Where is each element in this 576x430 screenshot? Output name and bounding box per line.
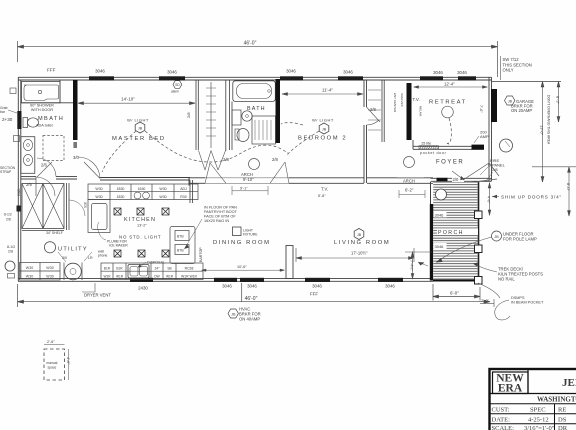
svg-text:◄: ◄	[446, 142, 449, 146]
living ceiling fan	[354, 229, 364, 240]
bath2 walls	[229, 80, 231, 150]
bedroom2 east wall	[364, 80, 367, 183]
svg-text:46'-0": 46'-0"	[245, 296, 258, 302]
svg-text:alarm: alarm	[171, 90, 179, 94]
svg-text:PORCH: PORCH	[438, 230, 464, 236]
svg-text:DR: DR	[558, 425, 568, 430]
svg-text:JB: JB	[138, 127, 143, 131]
dryer vent cap outside wall	[5, 261, 15, 271]
svg-text:SB: SB	[167, 267, 171, 271]
right side dim 8'-0"	[532, 166, 576, 168]
svg-text:SCALE:: SCALE:	[492, 425, 515, 430]
house shell	[18, 77, 492, 281]
svg-text:8'-0": 8'-0"	[566, 183, 571, 192]
hall ceiling light 1	[249, 159, 260, 170]
window 3046 top 1	[89, 76, 114, 80]
utility east wall stub	[22, 183, 69, 231]
utility washer/dryer	[22, 184, 64, 229]
svg-text:3046: 3046	[343, 70, 353, 75]
floor registers kitchen	[114, 208, 169, 257]
svg-text:NO RAIL: NO RAIL	[498, 277, 515, 282]
bartop column	[170, 227, 195, 264]
bath2 toilet	[237, 129, 249, 142]
svg-text:2/8: 2/8	[492, 167, 498, 172]
master closet	[196, 80, 226, 151]
window 3046 top 3	[280, 76, 303, 80]
svg-text:8-1/2: 8-1/2	[4, 213, 12, 217]
svg-text:7'-4½": 7'-4½"	[410, 260, 414, 271]
carport roof line	[492, 81, 562, 83]
foyer exterior door swings	[463, 163, 499, 183]
svg-text:DSMPS: DSMPS	[511, 296, 525, 300]
svg-text:13'-2": 13'-2"	[137, 224, 147, 228]
svg-text:JB: JB	[322, 128, 327, 132]
mbath vanity	[21, 137, 35, 174]
bedroom2 width dim 11'-4"	[282, 93, 363, 96]
svg-text:BEDROOM 2: BEDROOM 2	[298, 136, 347, 142]
wall mbath/master (thick shear wall)	[73, 80, 78, 140]
svg-text:13'-0": 13'-0"	[540, 125, 545, 136]
svg-text:W30: W30	[95, 195, 102, 199]
svg-text:B1R: B1R	[104, 267, 111, 271]
svg-text:9'-10": 9'-10"	[243, 177, 254, 182]
svg-text:4-25-12: 4-25-12	[528, 416, 549, 423]
svg-text:WITH DOOR: WITH DOOR	[31, 108, 53, 112]
svg-text:FIXTURE: FIXTURE	[243, 233, 258, 237]
svg-text:W30: W30	[26, 275, 33, 279]
svg-text:12'-4": 12'-4"	[444, 82, 455, 87]
shear wall bath2/bedroom2	[276, 79, 281, 143]
svg-text:AMP: AMP	[480, 134, 489, 139]
window 3046 top 5	[420, 76, 443, 80]
porch bottom edge	[433, 280, 475, 282]
svg-text:space: space	[48, 366, 57, 370]
svg-text:S18: S18	[84, 202, 88, 208]
svg-text:FOYER: FOYER	[436, 160, 464, 166]
svg-text:15 lite: 15 lite	[421, 142, 431, 146]
svg-text:THIS SECTION: THIS SECTION	[503, 62, 532, 67]
svg-text:SW 7/12: SW 7/12	[503, 57, 520, 62]
svg-text:6'-0": 6'-0"	[450, 291, 459, 296]
svg-text:DINING ROOM: DINING ROOM	[213, 240, 271, 246]
bottom wall	[18, 278, 433, 280]
bedroom zone south wall (marriage wall)	[189, 178, 433, 184]
right wall shear (black)	[491, 89, 497, 122]
svg-text:SPEC: SPEC	[530, 406, 546, 413]
svg-text:2/8: 2/8	[26, 182, 32, 187]
foyer/porch wall with exterior door	[431, 178, 492, 181]
svg-text:2/8: 2/8	[6, 218, 11, 222]
closet doors	[199, 151, 226, 171]
svg-text:17'-10½": 17'-10½"	[351, 251, 368, 256]
svg-text:WASHINGTO: WASHINGTO	[537, 396, 576, 404]
svg-text:ON 40AMP: ON 40AMP	[239, 317, 260, 322]
carport dim 13'-0"	[541, 82, 544, 183]
bath2 tub	[233, 81, 275, 102]
hall door arcs	[205, 163, 226, 183]
svg-text:3046: 3046	[167, 70, 177, 75]
svg-text:LR: LR	[88, 256, 93, 260]
kitchen base cabinets / island	[101, 263, 203, 280]
svg-text:24": 24"	[155, 267, 160, 271]
svg-text:UTILITY: UTILITY	[58, 247, 88, 253]
svg-text:3046: 3046	[435, 244, 445, 249]
svg-text:3046: 3046	[95, 69, 105, 74]
svg-text:W/ LIGHT: W/ LIGHT	[312, 118, 334, 123]
svg-text:3046: 3046	[286, 69, 296, 74]
svg-text:R30: R30	[180, 195, 186, 199]
window 3046 bottom living 1	[305, 278, 330, 282]
svg-text:2/8: 2/8	[8, 250, 13, 254]
svg-text:8'-3": 8'-3"	[556, 96, 561, 105]
svg-text:11'-4": 11'-4"	[322, 88, 333, 93]
pocket door wall foyer/retreat	[413, 140, 472, 149]
svg-text:ENT CENTER: ENT CENTER	[393, 93, 397, 113]
JB box left margin	[10, 88, 16, 94]
svg-text:BARTOP: BARTOP	[199, 247, 203, 262]
arch opening foyer side	[397, 177, 424, 179]
svg-text:W30: W30	[159, 187, 166, 191]
kitchen sink	[128, 265, 149, 279]
svg-text:1830: 1830	[117, 187, 125, 191]
hall ceiling light 2	[404, 157, 415, 168]
porch/living wall (black)	[430, 182, 432, 204]
utility door arc	[58, 252, 92, 262]
deck width dim 6'-0"	[433, 284, 480, 301]
svg-text:3046: 3046	[435, 213, 445, 218]
svg-text:2/8: 2/8	[370, 107, 376, 112]
svg-text:2430: 2430	[138, 286, 148, 291]
retreat dim 12'-0"	[414, 86, 487, 88]
master bed door 3/0	[78, 157, 100, 179]
svg-text:ON 20AMP: ON 20AMP	[511, 108, 532, 113]
interior wall mbath south	[21, 177, 190, 186]
svg-text:SD: SD	[175, 83, 180, 87]
svg-text:ARCH: ARCH	[403, 178, 415, 183]
svg-text:IN BEAM POCKET: IN BEAM POCKET	[511, 301, 544, 305]
kitchen east wall	[190, 180, 193, 203]
svg-text:34" SHELF: 34" SHELF	[46, 231, 63, 235]
media wall	[286, 246, 293, 279]
under floor pole lamp note	[492, 231, 502, 241]
porch round table	[436, 189, 447, 200]
svg-text:MBATH: MBATH	[38, 116, 64, 122]
svg-text:3/16"=1'-0": 3/16"=1'-0"	[524, 425, 555, 430]
svg-text:3046: 3046	[433, 70, 443, 75]
retreat ceiling light	[442, 106, 454, 118]
svg-text:RETREAT: RETREAT	[429, 100, 467, 106]
mbath north interior wall	[21, 102, 73, 104]
svg-text:W30: W30	[95, 187, 102, 191]
svg-text:W30: W30	[46, 266, 53, 270]
arch opening dining	[205, 177, 289, 179]
svg-text:KITCHEN: KITCHEN	[124, 217, 156, 223]
svg-text:W1R: W1R	[116, 275, 124, 279]
2'-0" dim	[480, 299, 494, 307]
kitchen north cabinets	[88, 184, 198, 200]
overall bottom dimension 46'-0"	[18, 283, 491, 307]
svg-text:ADJ: ADJ	[180, 187, 187, 191]
svg-text:PANTRY/HT BOOT: PANTRY/HT BOOT	[204, 210, 238, 214]
svg-text:2+30: 2+30	[2, 117, 13, 122]
window 3046 top 4	[338, 76, 363, 80]
svg-text:IN FLOOR OF PAN: IN FLOOR OF PAN	[204, 206, 237, 210]
svg-text:B1R: B1R	[116, 267, 123, 271]
svg-text:ERA: ERA	[498, 383, 523, 395]
right wall	[488, 77, 490, 181]
svg-text:ICE MAKER: ICE MAKER	[109, 243, 128, 247]
svg-text:2'-6": 2'-6"	[47, 340, 55, 344]
svg-text:ADA toilet: ADA toilet	[36, 124, 54, 128]
svg-text:pocket door: pocket door	[420, 151, 447, 155]
bath2 vanity and sink	[232, 110, 241, 125]
svg-text:STRAP: STRAP	[0, 170, 12, 174]
svg-text:BATH: BATH	[247, 106, 266, 112]
svg-text:RC38: RC38	[185, 267, 194, 271]
wiring dashed curve master	[145, 131, 288, 162]
svg-text:RE: RE	[558, 406, 566, 413]
svg-text:2/6: 2/6	[41, 163, 47, 168]
svg-text:W30: W30	[159, 195, 166, 199]
svg-text:SHIM UP DOORS 3/4": SHIM UP DOORS 3/4"	[501, 195, 562, 200]
garage brkr note	[505, 96, 515, 105]
top wall	[18, 76, 492, 78]
svg-text:FFF: FFF	[47, 68, 56, 73]
window 2430 left wall mbath	[17, 111, 21, 129]
fridge	[88, 200, 110, 233]
svg-text:16X20 RAG IN: 16X20 RAG IN	[204, 219, 229, 223]
window 3046 bottom living 2	[378, 278, 403, 282]
future space dashed box	[44, 349, 65, 380]
svg-text:JEN: JEN	[562, 377, 576, 389]
overall width dimension 46'-0"	[18, 41, 498, 77]
carport dim 8'-3"	[557, 82, 560, 123]
svg-text:W1R W1R: W1R W1R	[181, 275, 198, 279]
svg-text:3046: 3046	[222, 284, 232, 289]
porch right boundary	[478, 182, 480, 277]
bedroom2 wiring dashes	[287, 131, 319, 155]
left wall	[17, 77, 19, 281]
svg-text:2/8: 2/8	[272, 157, 278, 162]
svg-text:DATE:: DATE:	[492, 416, 511, 423]
svg-text:3/0: 3/0	[62, 256, 67, 260]
svg-text:DISPOSAL: DISPOSAL	[147, 261, 165, 265]
svg-text:W/ LIGHT: W/ LIGHT	[127, 118, 149, 123]
svg-text:W30: W30	[26, 266, 33, 270]
linen closet	[381, 80, 383, 142]
svg-text:2/8: 2/8	[186, 112, 191, 118]
svg-text:5'-8": 5'-8"	[318, 194, 326, 198]
door threshold black	[472, 145, 485, 150]
master bed width dim 14'-10"	[78, 102, 195, 105]
PORCH label	[437, 229, 478, 236]
window 3046 bottom dining 2	[240, 278, 264, 282]
porch posts	[475, 211, 483, 284]
svg-text:3/0: 3/0	[73, 155, 79, 160]
window 2430 bottom kitchen	[130, 278, 153, 282]
bath2 wardrobe	[252, 116, 276, 144]
svg-text:FFF: FFF	[310, 292, 318, 297]
svg-text:CUST:: CUST:	[492, 406, 510, 413]
svg-text:ONLY: ONLY	[503, 68, 514, 73]
mbath linen (dashed)	[43, 136, 64, 161]
shear wall tv/retreat (thick)	[407, 83, 412, 140]
HVAC BRKR note	[228, 309, 238, 318]
outlet box left wall	[14, 136, 20, 142]
svg-text:8-1/2: 8-1/2	[7, 245, 15, 249]
left wall vent mark	[17, 206, 22, 212]
svg-text:T.V.: T.V.	[413, 97, 420, 102]
deck dim 7'-4" rotated	[405, 252, 432, 279]
svg-text:SHELVES: SHELVES	[400, 93, 404, 107]
utility door arc	[36, 177, 55, 196]
svg-text:DON'T OVERHANG THIS AREA: DON'T OVERHANG THIS AREA	[547, 95, 551, 145]
svg-text:W30: W30	[46, 275, 53, 279]
svg-text:3046: 3046	[247, 284, 257, 289]
porch side dim 4'-0"	[488, 183, 491, 215]
svg-text:14'-10": 14'-10"	[121, 97, 135, 102]
mbath toilet	[23, 118, 28, 128]
svg-text:W1R: W1R	[103, 275, 111, 279]
svg-text:3046: 3046	[457, 70, 467, 75]
svg-text:7'-6": 7'-6"	[479, 105, 483, 113]
MBATH shower 60in	[22, 82, 61, 103]
dining light fixture	[233, 227, 242, 236]
svg-text:FACE OF BTM OF: FACE OF BTM OF	[204, 215, 236, 219]
svg-text:BTB: BTB	[177, 249, 184, 253]
porch door threshold	[437, 178, 448, 182]
window 3046 top 2	[159, 76, 185, 80]
svg-text:1630: 1630	[138, 187, 146, 191]
svg-text:BTB: BTB	[177, 235, 184, 239]
svg-text:bar: bar	[0, 110, 6, 114]
svg-text:46'-0": 46'-0"	[244, 41, 257, 47]
svg-text:W1R: W1R	[166, 275, 174, 279]
svg-text:4'-0": 4'-0"	[487, 196, 491, 204]
porch deck hatch	[433, 182, 477, 281]
retreat wiring dash	[449, 118, 451, 143]
window 3046 top 6	[458, 76, 476, 80]
master south wall	[100, 177, 190, 179]
svg-text:phone: phone	[98, 254, 108, 258]
svg-text:manual: manual	[47, 361, 58, 365]
smoke detector at top	[173, 81, 182, 89]
svg-text:10'-6": 10'-6"	[237, 265, 247, 269]
title block	[490, 369, 576, 430]
svg-text:2/0: 2/0	[453, 177, 459, 182]
utility ceiling light	[44, 242, 55, 253]
utility base cabinets W30	[20, 263, 61, 281]
svg-text:T.V.: T.V.	[321, 187, 328, 192]
svg-text:JB: JB	[357, 233, 362, 237]
svg-text:DS: DS	[558, 416, 567, 423]
utility laundry tub	[65, 263, 82, 280]
svg-text:9'-1": 9'-1"	[240, 187, 248, 191]
svg-text:3046: 3046	[385, 284, 395, 289]
svg-text:3046: 3046	[312, 284, 322, 289]
svg-text:W&D: W&D	[17, 188, 21, 196]
svg-text:4'-0": 4'-0"	[66, 357, 70, 365]
svg-text:JB: JB	[494, 235, 499, 239]
pocket door hatch	[419, 146, 439, 149]
svg-text:MELAM.: MELAM.	[419, 106, 423, 117]
svg-text:FOR POLE LAMP: FOR POLE LAMP	[503, 237, 537, 242]
svg-text:LIVING ROOM: LIVING ROOM	[334, 240, 390, 246]
pole lamp circle	[500, 139, 513, 152]
svg-text:DRYER VENT: DRYER VENT	[84, 293, 111, 298]
svg-text:2'-0": 2'-0"	[481, 298, 490, 303]
svg-text:6'-2": 6'-2"	[405, 188, 414, 193]
svg-text:JB: JB	[231, 312, 236, 316]
window 3046 bottom dining 1	[214, 278, 237, 282]
svg-text:DW: DW	[154, 275, 159, 279]
porch windows 3046 labels	[434, 212, 447, 218]
svg-text:1830: 1830	[117, 195, 125, 199]
